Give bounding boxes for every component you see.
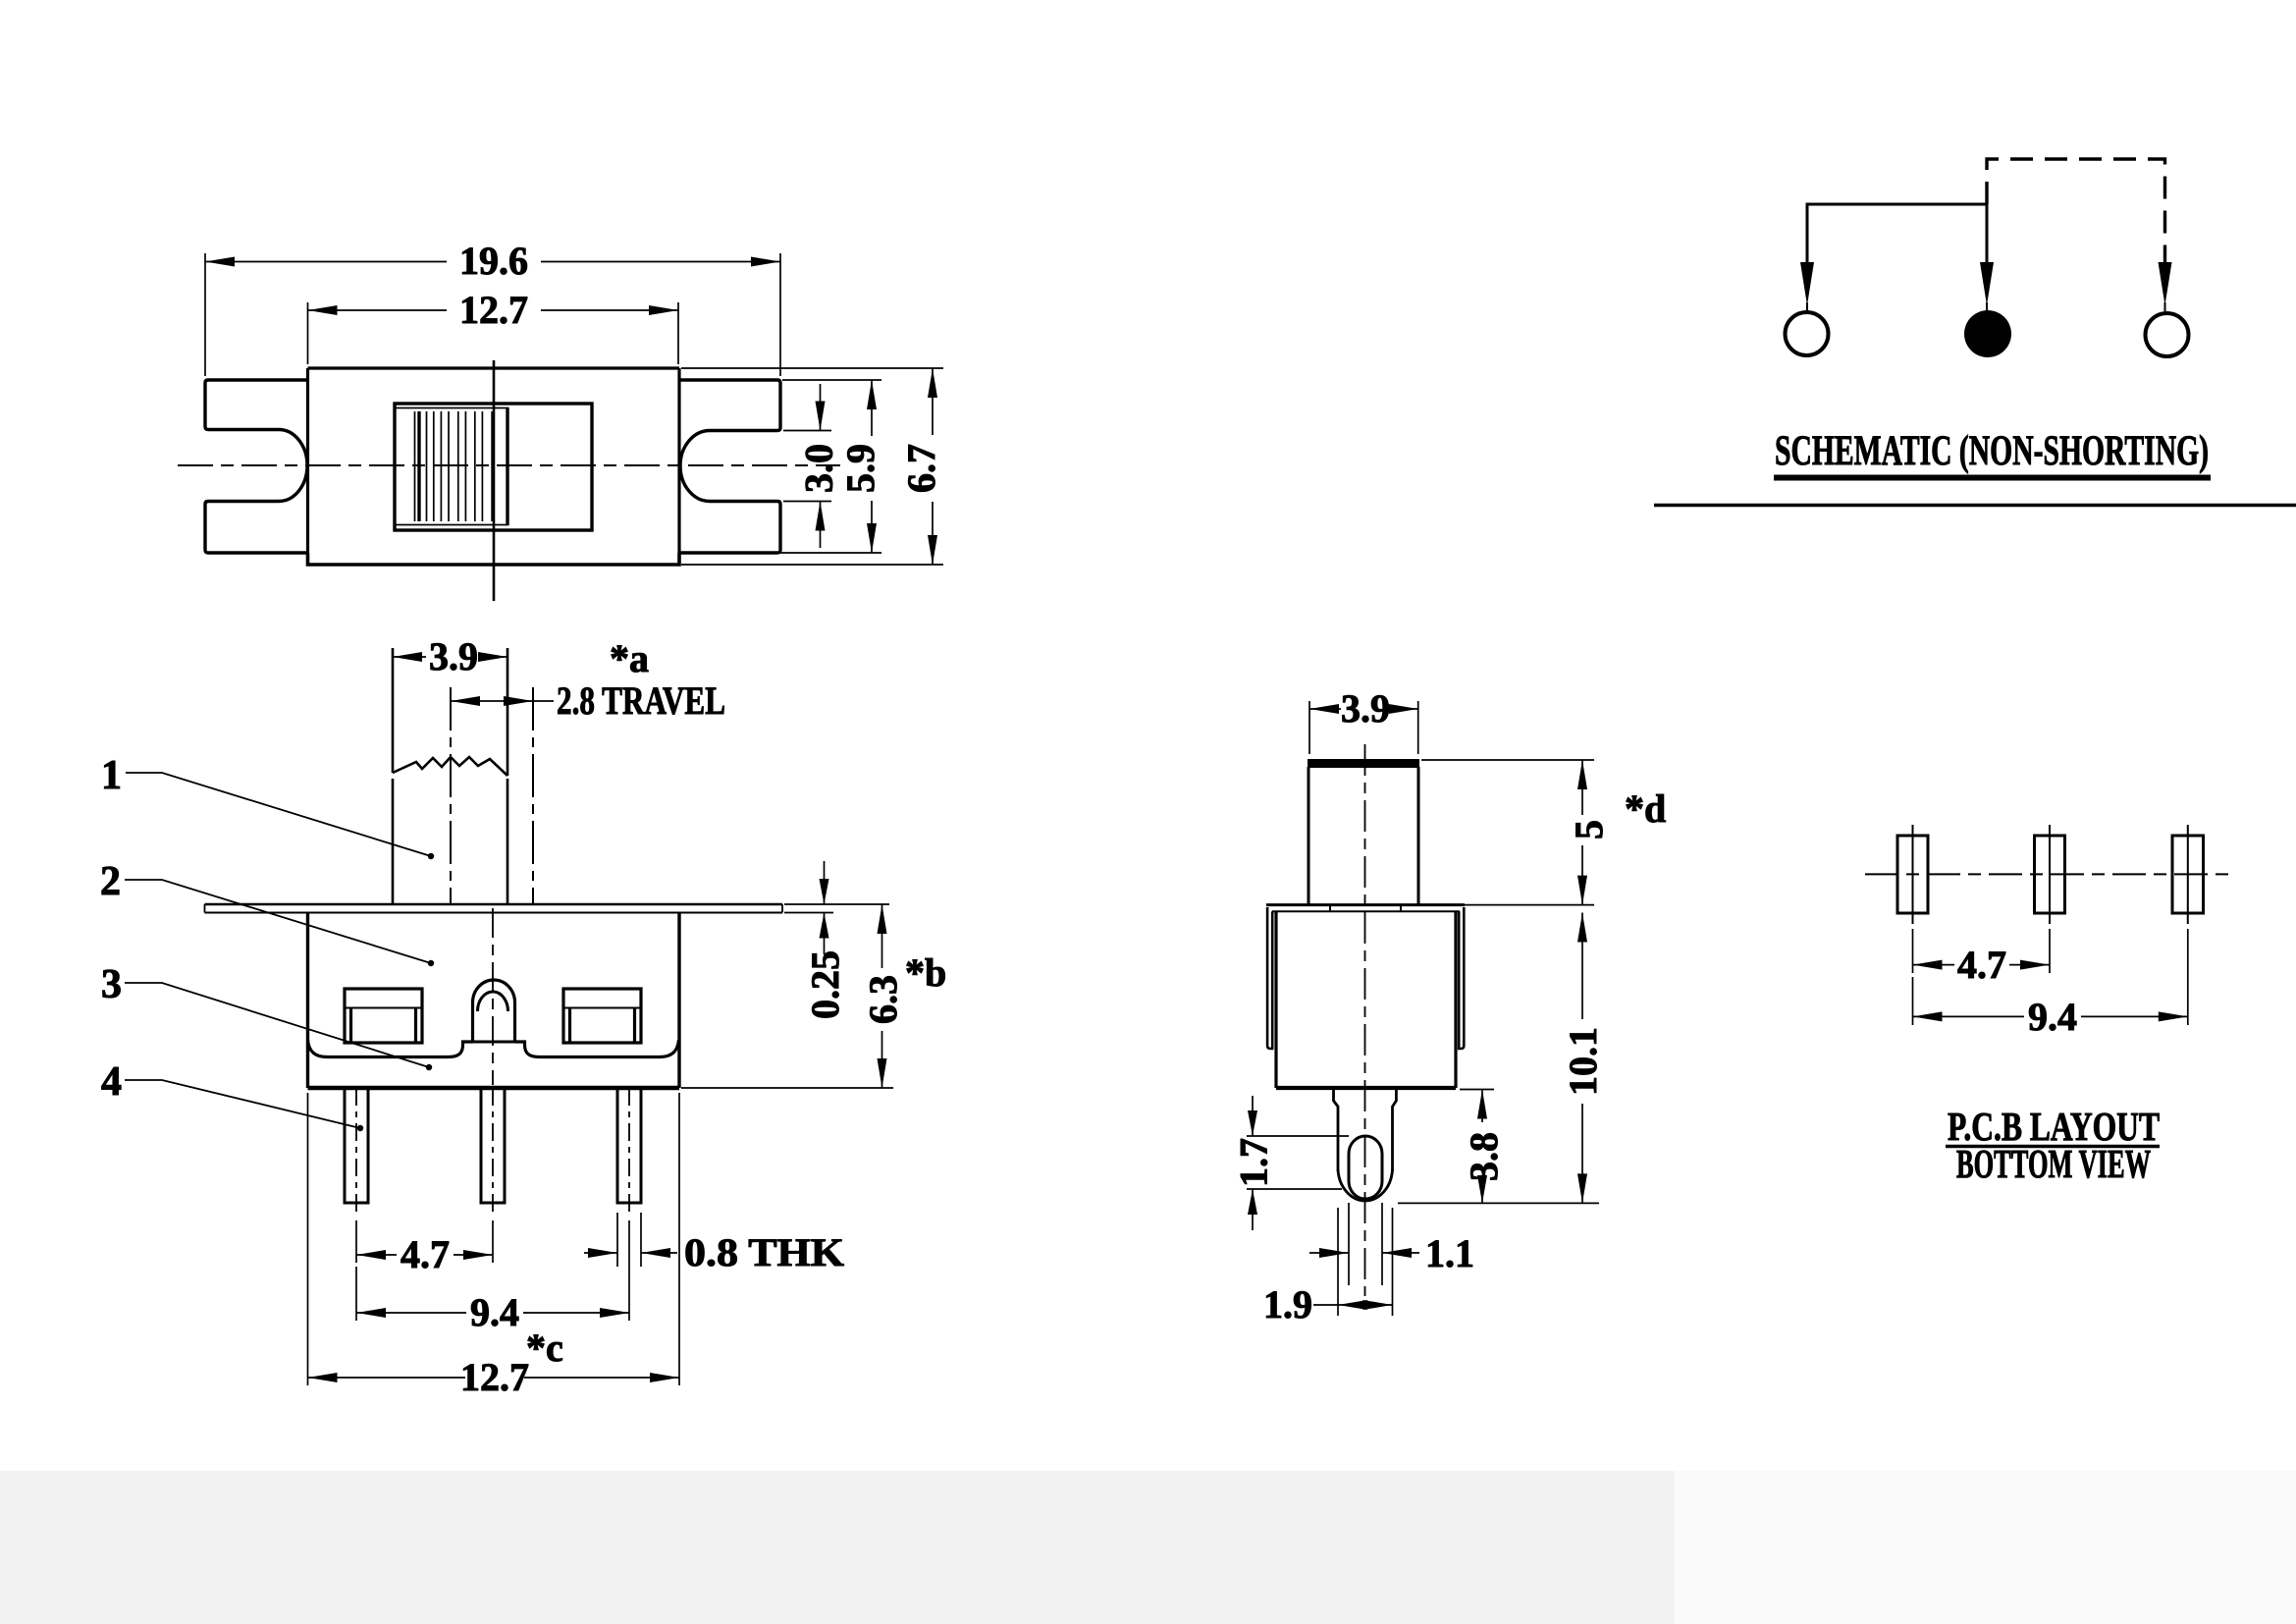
- arrow to terminal 3: [2159, 262, 2172, 305]
- svg-text:2.8 TRAVEL: 2.8 TRAVEL: [557, 678, 725, 723]
- svg-text:4: 4: [101, 1059, 122, 1105]
- horizontal centerline (top view): [178, 464, 840, 466]
- svg-text:9.4: 9.4: [2028, 995, 2077, 1039]
- right mounting bracket: [679, 380, 780, 553]
- left contact window: [345, 989, 422, 1043]
- mounting flange (part 2 plate): [205, 903, 783, 906]
- side centerline: [1364, 744, 1366, 1296]
- dimension 12.7 (top): [308, 302, 679, 364]
- dimension 2.8 TRAVEL: [451, 700, 554, 702]
- dimension 6.7: [681, 368, 943, 565]
- svg-text:1: 1: [101, 753, 122, 798]
- svg-text:2: 2: [100, 859, 121, 904]
- switch body outline (top view): [308, 366, 680, 369]
- svg-text:6.7: 6.7: [899, 444, 943, 493]
- side flange: [1266, 903, 1465, 906]
- dimension 1.7: [1247, 1136, 1349, 1189]
- svg-text:*c: *c: [526, 1326, 563, 1370]
- svg-text:19.6: 19.6: [459, 239, 528, 283]
- svg-text:3: 3: [101, 962, 122, 1007]
- pad 3: [2172, 836, 2204, 913]
- svg-text:3.0: 3.0: [797, 444, 841, 493]
- slider knob (top view): [396, 408, 508, 525]
- dimension 3.9 (side): [1309, 701, 1418, 754]
- dimension 0.25: [784, 904, 889, 913]
- dimension 4.7 (front): [356, 1220, 493, 1263]
- pad 2: [2035, 836, 2065, 913]
- right contact window: [563, 989, 641, 1043]
- vertical body centerline (top view): [493, 360, 496, 601]
- svg-text:*d: *d: [1625, 786, 1666, 831]
- dimension 0.8 THK: [617, 1213, 641, 1267]
- dimension 9.4 (pcb): [1913, 929, 2188, 1025]
- serration lines: [415, 411, 483, 521]
- pcb centerline: [1865, 873, 2234, 875]
- dimension 3.0: [783, 431, 831, 502]
- stem top cap: [1308, 759, 1419, 768]
- body centerline (front): [492, 908, 494, 1085]
- center arch detent: [473, 980, 515, 1042]
- svg-text:*a: *a: [610, 636, 649, 680]
- dimension 6.3: [681, 1087, 893, 1089]
- title block rule: [1654, 504, 2296, 507]
- wire solid: common to left and middle terminal: [1807, 204, 1987, 262]
- svg-text:0.25: 0.25: [803, 950, 847, 1019]
- knob serration band: [417, 411, 420, 521]
- svg-text:BOTTOM VIEW: BOTTOM VIEW: [1956, 1141, 2151, 1186]
- knob stem (part 1): [393, 648, 507, 776]
- svg-text:3.9: 3.9: [1341, 686, 1390, 731]
- knob stem (side): [1308, 767, 1418, 904]
- pin hole (oval): [1349, 1136, 1382, 1199]
- dimension 5.9: [780, 380, 881, 553]
- dimension 3.9 (front stem): [393, 656, 507, 658]
- dimension 1.1: [1349, 1203, 1382, 1285]
- svg-text:10.1: 10.1: [1561, 1027, 1605, 1096]
- flange tick marks: [1330, 905, 1401, 912]
- terminal 3 (open circle): [2146, 313, 2189, 356]
- stem break zigzag: [393, 757, 507, 776]
- svg-text:3.9: 3.9: [429, 634, 478, 678]
- body (front view): [308, 913, 680, 1089]
- dimension 1.9: [1338, 1208, 1393, 1316]
- left mounting bracket: [205, 380, 308, 553]
- svg-text:*b: *b: [905, 950, 946, 995]
- svg-text:5.9: 5.9: [838, 444, 882, 493]
- dimension 3.8: [1460, 1089, 1494, 1091]
- pad 1: [1897, 836, 1928, 913]
- pin centerlines: [355, 1088, 357, 1216]
- body (side view): [1276, 911, 1456, 1088]
- svg-text:1.7: 1.7: [1232, 1138, 1276, 1187]
- svg-text:12.7: 12.7: [460, 1355, 529, 1399]
- arrow to terminal 2: [1980, 262, 1994, 305]
- svg-text:4.7: 4.7: [1957, 943, 2006, 987]
- svg-text:4.7: 4.7: [400, 1232, 450, 1276]
- dimension 10.1: [1581, 913, 1583, 1204]
- svg-text:SCHEMATIC (NON-SHORTING): SCHEMATIC (NON-SHORTING): [1775, 428, 2209, 474]
- dimension 4.7 (pcb): [1913, 929, 2051, 973]
- travel centerlines: [450, 687, 452, 904]
- svg-text:1.9: 1.9: [1263, 1282, 1312, 1326]
- terminal 2 (filled circle): [1964, 310, 2011, 357]
- pin (side view): [1334, 1088, 1397, 1171]
- svg-text:5: 5: [1567, 820, 1611, 839]
- svg-text:1.1: 1.1: [1425, 1231, 1474, 1275]
- svg-text:0.8 THK: 0.8 THK: [684, 1230, 844, 1274]
- dimension 19.6: [205, 253, 780, 376]
- slider opening rectangle: [395, 404, 592, 530]
- dimension 12.7 (bottom): [308, 1093, 680, 1385]
- terminal 1 (open circle): [1786, 312, 1829, 355]
- svg-text:9.4: 9.4: [470, 1290, 519, 1334]
- arrow to terminal 1: [1800, 262, 1814, 305]
- dimension 5: [1581, 760, 1583, 905]
- svg-text:12.7: 12.7: [459, 288, 528, 332]
- svg-text:6.3: 6.3: [861, 975, 905, 1024]
- inner base profile (part 3): [308, 1040, 473, 1057]
- scan shading strip bottom: [0, 1471, 1675, 1624]
- terminal pins (part 4): [345, 1088, 368, 1203]
- dimension 5 and 10.1 shared extension: [1398, 760, 1599, 1203]
- dimension 9.4 (front): [356, 1220, 629, 1321]
- flange lips: [1267, 907, 1272, 1049]
- wire dashed: alternate position to right terminal: [1987, 159, 2165, 262]
- svg-text:3.8: 3.8: [1462, 1132, 1506, 1181]
